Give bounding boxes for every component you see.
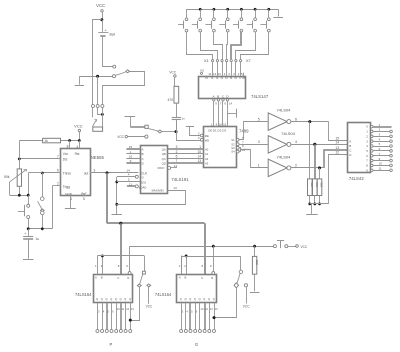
svg-text:A1: A1 [205,152,209,156]
svg-text:1k: 1k [44,139,48,143]
svg-text:7489: 7489 [239,129,249,134]
svg-text:74LS42: 74LS42 [349,176,364,181]
svg-text:I2: I2 [216,76,219,80]
svg-text:VCC: VCC [243,305,250,309]
svg-text:1n: 1n [182,117,186,121]
svg-text:Q: Q [213,297,215,301]
svg-text:A: A [179,276,181,280]
svg-text:I1: I1 [211,76,214,80]
svg-text:2k2: 2k2 [320,183,324,188]
svg-text:R: R [127,276,129,280]
svg-text:Q: Q [101,297,103,301]
svg-text:S1: S1 [231,138,235,142]
svg-text:C: C [117,276,119,280]
svg-text:out: out [84,172,89,176]
svg-text:Q: Q [208,297,210,301]
svg-text:I4: I4 [225,76,228,80]
svg-text:3: 3 [258,140,260,144]
svg-text:C: C [142,157,144,161]
svg-text:A2: A2 [205,157,209,161]
svg-text:I8: I8 [242,76,245,80]
svg-text:P: P [110,342,113,347]
svg-text:Rst: Rst [75,152,80,156]
svg-text:6: 6 [57,169,59,173]
svg-text:A: A [142,147,144,151]
svg-text:D: D [142,162,144,166]
svg-text:Q: Q [120,297,122,301]
svg-text:4: 4 [128,173,130,177]
svg-text:VCC: VCC [96,3,105,8]
svg-text:Q: Q [180,297,182,301]
svg-text:Q: Q [194,297,196,301]
svg-text:B: B [185,276,187,280]
svg-text:B: B [101,276,103,280]
svg-text:9: 9 [130,159,132,163]
svg-text:13: 13 [197,159,201,163]
svg-text:GND: GND [65,192,73,196]
svg-text:Q: Q [203,297,205,301]
svg-text:S3: S3 [231,146,235,150]
svg-text:LOAD: LOAD [139,185,147,189]
svg-text:74LS164: 74LS164 [155,292,172,297]
svg-text:I6: I6 [235,76,238,80]
svg-text:Dis: Dis [63,157,68,161]
svg-text:B: B [142,152,144,156]
svg-text:10: 10 [219,123,223,127]
svg-text:VCC: VCC [117,135,124,139]
svg-text:Q: Q [110,297,112,301]
svg-text:VCC: VCC [169,70,176,74]
svg-text:Q: Q [106,297,108,301]
svg-text:A: A [349,140,351,144]
svg-text:11: 11 [129,182,132,186]
svg-text:1u: 1u [35,237,39,241]
svg-text:I3: I3 [221,76,224,80]
svg-text:14: 14 [229,101,233,105]
svg-text:470: 470 [168,98,174,102]
svg-text:GS: GS [200,68,204,72]
svg-text:1: 1 [199,145,201,149]
svg-text:74LS164: 74LS164 [75,292,92,297]
svg-text:13: 13 [335,146,339,150]
svg-text:B: B [217,95,219,99]
svg-text:2: 2 [176,150,178,154]
svg-text:Q: Q [199,297,201,301]
svg-text:+: + [24,232,26,236]
svg-text:7: 7 [176,159,178,163]
svg-text:S2: S2 [231,142,235,146]
svg-text:G: G [195,342,198,347]
svg-text:74LS04: 74LS04 [277,108,292,113]
svg-text:Q: Q [124,297,126,301]
svg-text:QB: QB [162,152,166,156]
svg-text:11: 11 [379,166,382,170]
svg-text:WE: WE [205,138,210,142]
svg-text:13: 13 [173,186,177,190]
svg-text:R: R [211,276,213,280]
svg-text:5: 5 [258,117,260,121]
svg-text:QC: QC [162,157,166,161]
svg-text:B: B [349,144,351,148]
svg-text:3: 3 [94,169,96,173]
svg-text:3: 3 [176,145,178,149]
svg-text:12: 12 [174,164,178,168]
svg-text:10: 10 [129,155,133,159]
svg-text:VCC: VCC [74,123,83,128]
svg-text:6: 6 [176,155,178,159]
svg-text:10: 10 [379,162,383,166]
svg-text:Q: Q [185,297,187,301]
svg-text:5: 5 [83,197,85,201]
svg-text:A0: A0 [205,147,209,151]
svg-text:2: 2 [57,182,59,186]
svg-text:QD: QD [162,162,166,166]
svg-text:C: C [201,276,203,280]
svg-text:4: 4 [295,140,297,144]
svg-text:NE555: NE555 [91,155,105,160]
svg-text:13: 13 [223,123,227,127]
svg-text:QA: QA [162,147,166,151]
svg-text:74LS04: 74LS04 [277,154,292,159]
svg-text:74LS147: 74LS147 [251,94,269,99]
svg-text:50k: 50k [4,175,10,179]
svg-text:Trigg: Trigg [63,185,70,189]
svg-text:7: 7 [57,155,59,159]
svg-text:Q: Q [129,297,131,301]
svg-text:VCC: VCC [301,245,308,249]
svg-text:A3: A3 [205,162,209,166]
svg-text:I5: I5 [230,76,233,80]
svg-text:D0 D1 D2 D3: D0 D1 D2 D3 [208,128,226,132]
svg-text:15: 15 [197,150,201,154]
svg-text:X7: X7 [246,58,252,63]
svg-text:6: 6 [295,117,297,121]
svg-text:VCC: VCC [146,305,153,309]
svg-text:ME: ME [205,134,209,138]
svg-text:2k2: 2k2 [255,260,259,265]
svg-text:5: 5 [128,178,130,182]
svg-text:14: 14 [335,141,339,145]
svg-text:74LS04: 74LS04 [281,131,296,136]
svg-text:A: A [95,276,97,280]
svg-text:14: 14 [197,155,201,159]
svg-text:Q: Q [96,297,98,301]
svg-text:Q: Q [189,297,191,301]
svg-text:Thres: Thres [63,172,72,176]
svg-text:MAX/MIN: MAX/MIN [152,188,164,192]
svg-text:15: 15 [129,145,133,149]
svg-text:2k2: 2k2 [310,183,314,188]
svg-text:Vcc: Vcc [63,152,69,156]
svg-text:D/U: D/U [141,180,146,184]
svg-text:1: 1 [70,197,72,201]
svg-text:Q: Q [115,297,117,301]
svg-text:G: G [142,176,144,180]
svg-text:S4: S4 [231,150,235,154]
svg-text:I9: I9 [205,76,208,80]
svg-text:1: 1 [130,150,132,154]
svg-text:X1: X1 [204,58,210,63]
svg-text:RCO: RCO [158,166,165,170]
svg-text:12: 12 [335,150,339,154]
svg-text:Bat: Bat [110,33,115,37]
svg-text:74LS191: 74LS191 [171,177,189,182]
